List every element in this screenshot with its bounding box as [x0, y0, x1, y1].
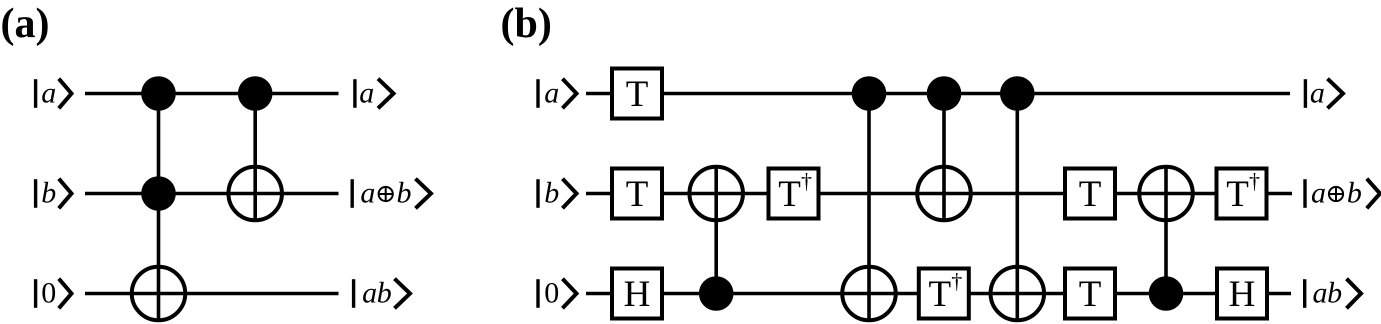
svg-text:H: H — [624, 274, 651, 315]
svg-text:(a): (a) — [1, 1, 50, 47]
svg-text:T: T — [1226, 174, 1249, 215]
svg-text:a: a — [544, 77, 559, 110]
svg-text:a: a — [41, 77, 56, 110]
svg-text:T: T — [626, 74, 649, 115]
ket |0> input (b) — [538, 277, 577, 310]
gate box T wire 0 colG — [1065, 269, 1115, 319]
panel label (a) — [1, 1, 50, 47]
gate box H wire 0 colA — [612, 269, 662, 319]
svg-text:H: H — [1229, 274, 1256, 315]
svg-text:T: T — [1079, 174, 1102, 215]
ket |a xor b> output (a) — [352, 177, 431, 210]
svg-text:b: b — [377, 277, 392, 310]
gate box T wire a colA — [612, 69, 662, 119]
ket |b> input (a) — [36, 177, 72, 210]
svg-text:a: a — [1313, 277, 1328, 310]
target oplus wire b colH — [1139, 167, 1193, 221]
ket |ab> output (a) — [354, 277, 410, 310]
wire a (b) — [586, 92, 1290, 96]
svg-text:a: a — [359, 77, 374, 110]
ket |ab> output (b) — [1305, 277, 1361, 310]
ket |a> input (b) — [538, 77, 577, 110]
target oplus wire0 (a) col1 — [132, 267, 186, 321]
control dot a colF — [1000, 76, 1035, 111]
gate box T-dagger wire b colI — [1217, 169, 1267, 219]
ket |a> input (a) — [36, 77, 72, 110]
svg-text:0: 0 — [41, 277, 56, 310]
gate box T wire b colG — [1065, 169, 1115, 219]
wire 0 (b) — [586, 292, 1291, 296]
Toffoli control line (a) col1 — [157, 94, 161, 323]
control dot a (a) col1 — [141, 76, 176, 111]
svg-text:b: b — [1327, 277, 1342, 310]
target oplus wire b colB — [689, 167, 743, 221]
svg-text:T: T — [626, 174, 649, 215]
panel label (b) — [501, 1, 552, 47]
control dot a colD — [852, 76, 887, 111]
ket |0> input (a) — [36, 277, 72, 310]
svg-text:T: T — [778, 174, 801, 215]
svg-text:b: b — [1347, 177, 1362, 210]
gate box H wire 0 colI — [1217, 269, 1267, 319]
target oplus wire0 colF — [991, 267, 1045, 321]
CNOT control line colE — [942, 94, 946, 223]
gate box T-dagger wire b colC — [769, 169, 819, 219]
svg-text:a: a — [1310, 77, 1325, 110]
CNOT control line (a) col2 — [253, 94, 257, 223]
ket |a> output (b) — [1305, 77, 1343, 110]
CNOT control line colD — [867, 94, 871, 323]
target oplus wire b (a) col2 — [228, 167, 282, 221]
svg-text:a: a — [360, 177, 375, 210]
ket |a> output (a) — [355, 77, 394, 110]
control dot b (a) col1 — [141, 176, 176, 211]
svg-text:†: † — [801, 169, 812, 194]
gate box T wire b colA — [612, 169, 662, 219]
svg-text:a: a — [362, 277, 377, 310]
wire b (b) — [586, 192, 1292, 196]
svg-text:(b): (b) — [501, 1, 552, 47]
control dot wire0 colH — [1149, 276, 1184, 311]
wire a (a) — [85, 92, 339, 96]
control dot a (a) col2 — [238, 76, 273, 111]
svg-text:†: † — [1249, 169, 1260, 194]
svg-text:b: b — [41, 177, 56, 210]
wire b (a) — [85, 192, 339, 196]
ket |a xor b> output (b) — [1305, 177, 1380, 210]
svg-text:T: T — [928, 274, 951, 315]
gate box T-dagger wire 0 colE — [919, 269, 969, 319]
svg-text:b: b — [544, 177, 559, 210]
CNOT control line colF — [1015, 94, 1019, 323]
svg-text:0: 0 — [544, 277, 559, 310]
ket |b> input (b) — [538, 177, 577, 210]
target oplus wire0 colD — [842, 267, 896, 321]
svg-text:a: a — [1311, 177, 1326, 210]
svg-text:T: T — [1079, 274, 1102, 315]
target oplus wire b colE — [917, 167, 971, 221]
CNOT control line colH — [1164, 166, 1168, 294]
svg-text:†: † — [951, 269, 962, 294]
control dot wire0 colB — [699, 276, 734, 311]
CNOT control line colB — [714, 166, 718, 294]
wire 0 (a) — [85, 292, 339, 296]
svg-text:b: b — [397, 177, 412, 210]
control dot a colE — [927, 76, 962, 111]
